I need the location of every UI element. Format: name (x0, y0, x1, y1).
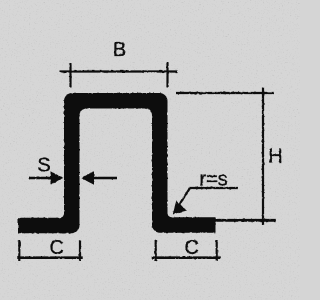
dimension H: bottom extension line (216, 219, 276, 222)
svg-text:H: H (268, 146, 282, 168)
r=s leader line (179, 188, 238, 205)
dimension C right: left tick (155, 240, 157, 261)
S arrow right (pointing left at wall inner face) (93, 177, 117, 180)
r=s arrowhead (173, 201, 187, 214)
hat channel profile (thick black section) (18, 93, 216, 233)
dimension B: left tick (69, 63, 71, 88)
dimension C left: right tick (79, 240, 81, 261)
dimension C left: left tick (18, 240, 20, 261)
svg-text:S: S (37, 155, 50, 177)
dimension B: right tick (166, 62, 168, 87)
dimension H: top extension line (176, 92, 274, 94)
svg-text:C: C (184, 237, 198, 259)
dimension C right: line (152, 256, 221, 259)
svg-text:B: B (113, 39, 126, 61)
dimension C right: right tick (216, 240, 218, 261)
dimension C left: line (17, 256, 82, 259)
S arrow left (pointing right at wall outer face) (29, 177, 52, 180)
dimension B: line (60, 70, 178, 72)
dimension H: vertical line (262, 88, 264, 226)
svg-text:C: C (49, 237, 63, 259)
